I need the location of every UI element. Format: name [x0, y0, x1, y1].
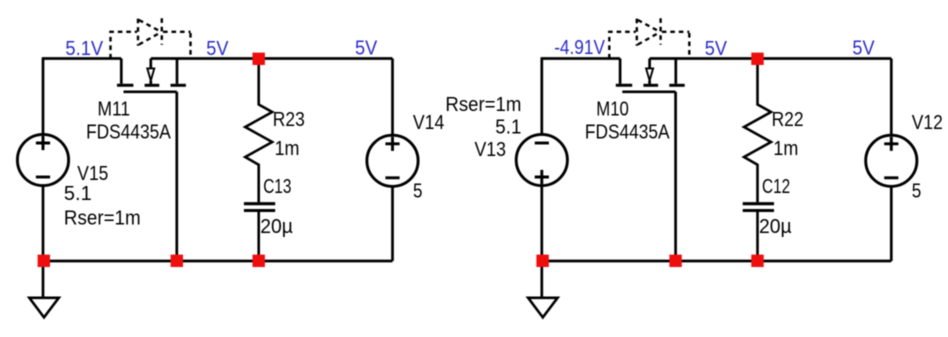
svg-text:5V: 5V [705, 38, 728, 60]
svg-text:5.1: 5.1 [495, 116, 521, 138]
svg-text:20µ: 20µ [759, 216, 792, 238]
svg-text:5: 5 [912, 181, 922, 203]
svg-text:C12: C12 [762, 176, 790, 198]
svg-text:FDS4435A: FDS4435A [86, 122, 171, 144]
svg-text:5V: 5V [355, 38, 378, 60]
svg-text:Rser=1m: Rser=1m [64, 208, 141, 230]
svg-text:M10: M10 [596, 99, 629, 121]
svg-text:R22: R22 [772, 109, 804, 131]
svg-text:V12: V12 [912, 112, 943, 134]
svg-text:FDS4435A: FDS4435A [585, 122, 670, 144]
svg-text:5.1V: 5.1V [65, 38, 103, 60]
svg-text:C13: C13 [263, 176, 291, 198]
svg-text:5V: 5V [852, 38, 875, 60]
svg-text:V14: V14 [413, 112, 444, 134]
svg-text:5V: 5V [206, 38, 229, 60]
svg-text:20µ: 20µ [260, 216, 293, 238]
svg-text:R23: R23 [273, 109, 305, 131]
svg-text:V13: V13 [475, 139, 507, 161]
svg-text:5.1: 5.1 [64, 183, 92, 205]
svg-text:Rser=1m: Rser=1m [445, 94, 521, 116]
svg-text:-4.91V: -4.91V [554, 37, 605, 59]
svg-text:1m: 1m [773, 138, 798, 160]
svg-text:1m: 1m [275, 138, 300, 160]
svg-text:M11: M11 [98, 99, 131, 121]
svg-text:5: 5 [413, 181, 423, 203]
svg-text:V15: V15 [77, 163, 108, 185]
